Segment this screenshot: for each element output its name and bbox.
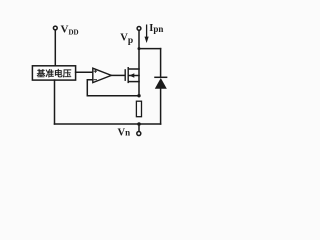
wire box output to op-amp noninverting input xyxy=(76,71,93,73)
op-amp plus sign xyxy=(94,70,97,73)
wire diode branch upper xyxy=(160,49,162,77)
op-amp minus sign xyxy=(94,79,97,81)
transistor Q1 gate bar xyxy=(124,70,126,80)
svg-text:Vn: Vn xyxy=(118,128,131,139)
wire op-amp output to gate xyxy=(111,74,124,76)
resistor R1 xyxy=(136,101,141,117)
svg-text:Ipn: Ipn xyxy=(149,23,163,34)
transistor Q1 drain stub xyxy=(129,68,139,70)
wire top horizontal to diode xyxy=(139,48,161,50)
reference voltage box U1 xyxy=(32,66,75,80)
wire VDD to box xyxy=(54,30,56,65)
current arrow Ipn xyxy=(146,25,148,38)
terminal Vn xyxy=(137,132,141,136)
diode D1 anode triangle xyxy=(155,78,167,89)
transistor Q1 body stub xyxy=(129,75,139,77)
wire to Vn terminal xyxy=(138,124,140,131)
op-amp U2 xyxy=(93,68,112,82)
wire Vp down through mosfet right side to feedback node xyxy=(138,31,140,96)
transistor Q1 body arrow xyxy=(129,73,134,78)
transistor Q1 channel bar xyxy=(127,68,129,83)
transistor Q1 source stub xyxy=(129,81,139,83)
svg-text:VDD: VDD xyxy=(61,23,79,36)
terminal Vp xyxy=(137,27,141,31)
node top junction xyxy=(138,47,141,50)
wire bottom rail xyxy=(55,123,161,125)
wire box bottom to rail xyxy=(54,80,56,124)
diode D1 cathode bar xyxy=(155,76,167,78)
node feedback junction xyxy=(137,94,140,97)
wire op-amp inverting input feedback xyxy=(87,80,139,96)
terminal VDD xyxy=(53,26,57,30)
wire diode branch lower xyxy=(160,89,162,124)
node bottom junction xyxy=(137,122,141,126)
svg-text:Vp: Vp xyxy=(120,32,133,46)
svg-text:基准电压: 基准电压 xyxy=(37,68,72,79)
